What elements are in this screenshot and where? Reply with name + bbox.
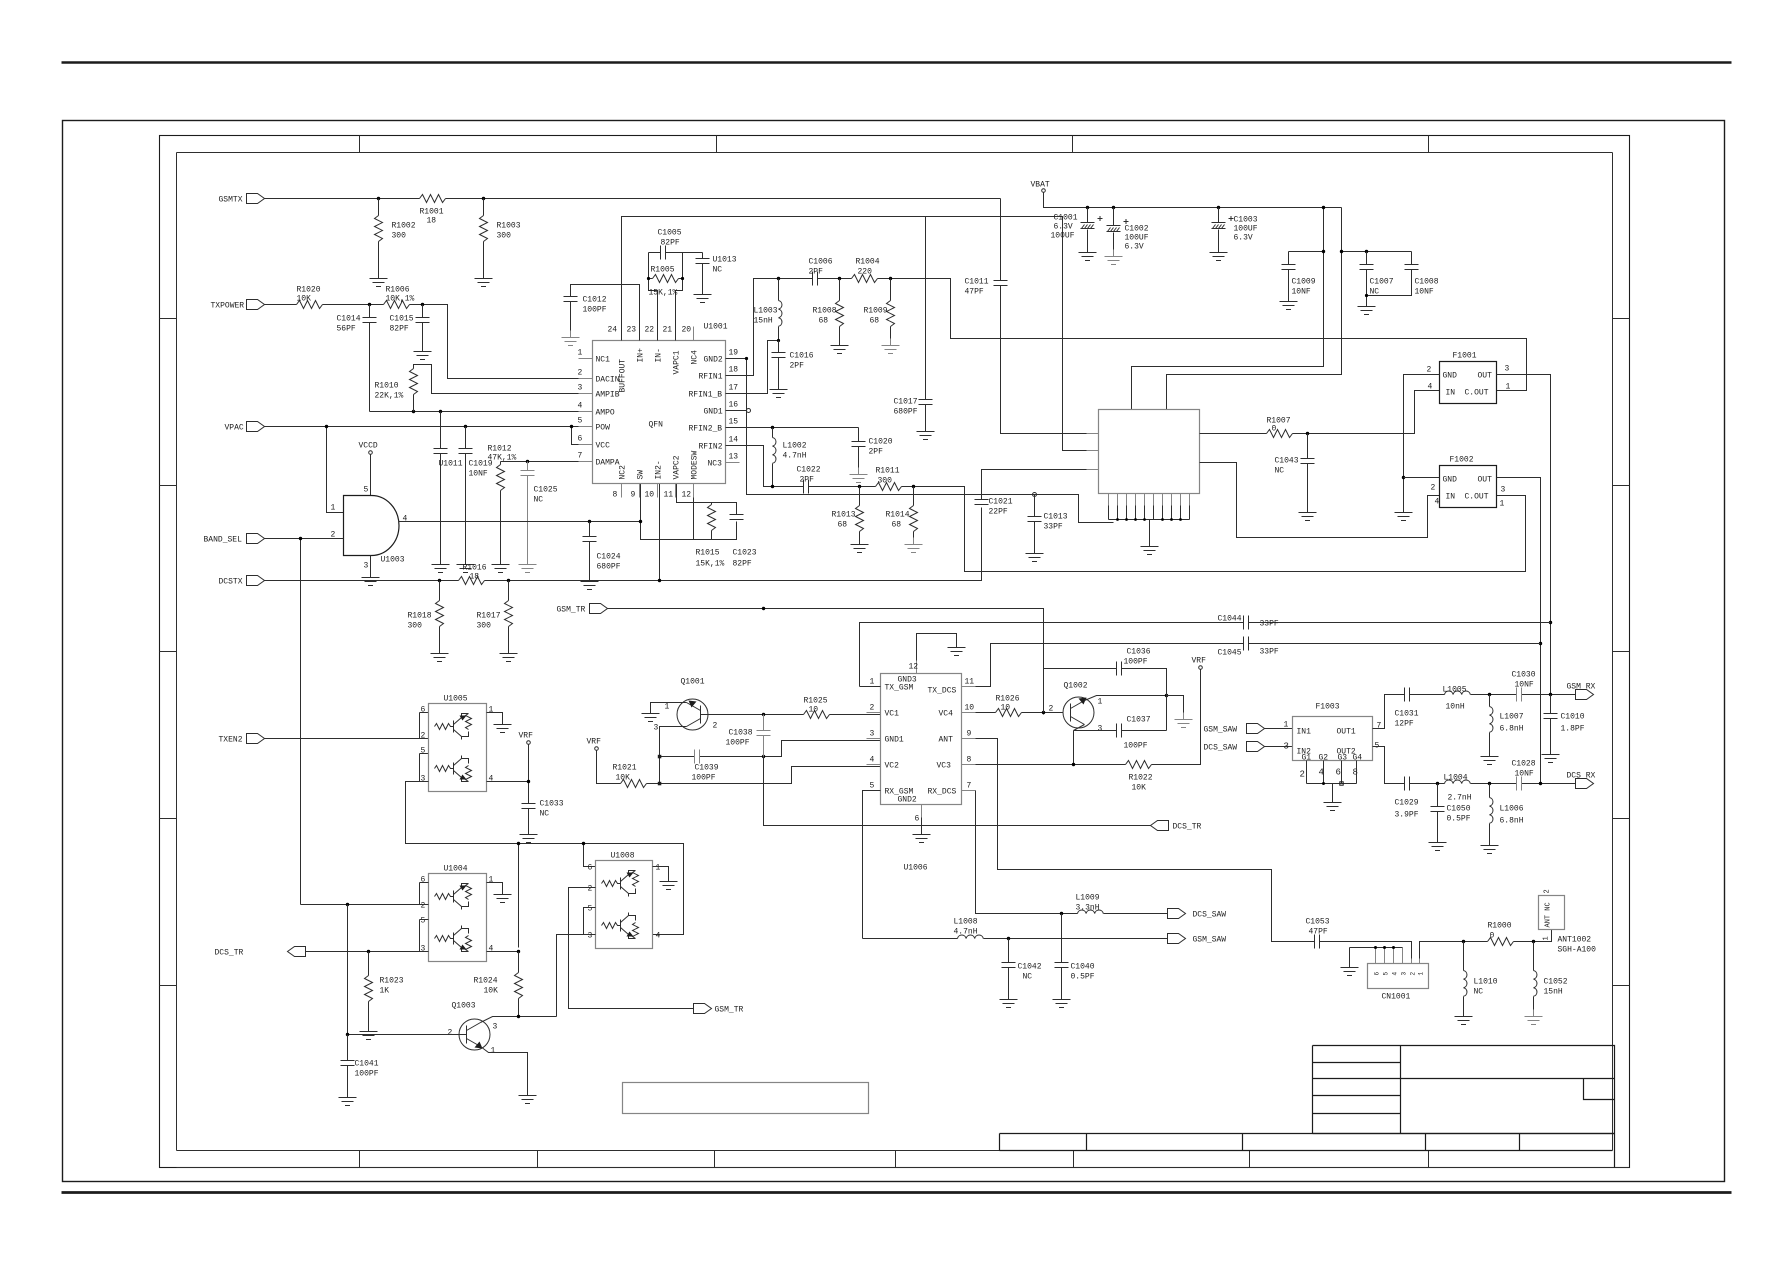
svg-text:L1009: L1009	[1076, 894, 1100, 903]
svg-text:C1016: C1016	[790, 352, 814, 361]
svg-text:5: 5	[870, 782, 875, 791]
svg-text:R1002: R1002	[392, 222, 416, 231]
ground U1011	[432, 558, 450, 573]
power VBAT	[1031, 181, 1050, 193]
svg-text:C1029: C1029	[1395, 799, 1419, 808]
svg-text:100PF: 100PF	[583, 306, 607, 315]
svg-text:1: 1	[1543, 936, 1551, 940]
capacitor C1030	[1512, 671, 1536, 702]
svg-text:680PF: 680PF	[597, 563, 621, 572]
svg-text:L1006: L1006	[1500, 805, 1524, 814]
wire net VBAT	[1044, 193, 1342, 410]
ground L1007	[1481, 750, 1499, 765]
svg-text:R1011: R1011	[876, 467, 900, 476]
svg-text:4: 4	[1428, 383, 1433, 392]
svg-text:300: 300	[878, 477, 893, 486]
connector DCS_RX	[1567, 772, 1596, 789]
svg-text:SW: SW	[637, 470, 646, 480]
ground C1043	[1299, 506, 1317, 521]
svg-text:5: 5	[588, 905, 593, 914]
PA module bottom pins	[1109, 494, 1190, 540]
svg-text:7: 7	[578, 452, 583, 461]
svg-text:IN1: IN1	[1297, 728, 1312, 737]
svg-text:C1044: C1044	[1218, 615, 1242, 624]
wire net U1005 pin4	[487, 745, 529, 804]
ground C1013	[1026, 547, 1044, 562]
connector GSM_SAW right	[1204, 724, 1265, 735]
wire net GSMTX	[265, 198, 1001, 200]
resistor R1005	[647, 266, 684, 341]
ground F1001	[1395, 506, 1413, 521]
inner frame inner line	[177, 153, 1613, 1151]
ground C1052	[1525, 1010, 1543, 1025]
ground C1010	[1542, 748, 1560, 763]
wire net Q1001 collector	[651, 703, 687, 707]
capacitor C1005	[649, 229, 683, 279]
wire net AMPO	[370, 411, 593, 413]
resistor R1013	[832, 487, 864, 538]
transistor array U1004	[429, 865, 487, 962]
ground Q1002 bias	[1175, 713, 1193, 728]
svg-text:4.7nH: 4.7nH	[954, 928, 978, 937]
capacitor C1040	[1055, 914, 1095, 993]
svg-text:22: 22	[645, 326, 655, 335]
capacitor C1053	[1306, 918, 1330, 949]
svg-text:1: 1	[870, 678, 875, 687]
svg-text:POW: POW	[596, 424, 611, 433]
svg-text:G3: G3	[1338, 754, 1348, 763]
wire net Q1002 collector	[1085, 696, 1167, 701]
resistor R1025	[804, 697, 830, 719]
svg-text:GSM_TR: GSM_TR	[715, 1006, 744, 1015]
svg-text:GND2: GND2	[704, 356, 723, 365]
svg-text:4: 4	[489, 775, 494, 784]
svg-text:33PF: 33PF	[1260, 648, 1279, 657]
wire net U1003 output	[399, 484, 694, 540]
svg-text:100UF: 100UF	[1125, 234, 1149, 243]
svg-text:R1017: R1017	[477, 612, 501, 621]
svg-text:NC: NC	[540, 810, 550, 819]
svg-text:VC3: VC3	[937, 762, 952, 771]
inductor L1006	[1490, 784, 1524, 839]
svg-text:5: 5	[364, 486, 369, 495]
resistor R1008	[813, 279, 844, 339]
and-gate U1003	[344, 496, 405, 565]
connector BAND_SEL	[204, 534, 265, 545]
svg-text:2: 2	[713, 722, 718, 731]
U1001 right pin numbers	[729, 349, 739, 462]
svg-text:3: 3	[421, 945, 426, 954]
svg-text:3: 3	[870, 730, 875, 739]
svg-text:NC: NC	[534, 496, 544, 505]
svg-text:47PF: 47PF	[1309, 928, 1328, 937]
wire net U1004 pin2 row	[301, 883, 429, 952]
svg-text:4: 4	[489, 945, 494, 954]
svg-text:TX_GSM: TX_GSM	[885, 684, 914, 693]
wire net Q1003 base	[348, 905, 467, 1035]
svg-text:10K: 10K	[616, 774, 631, 783]
svg-text:11: 11	[965, 678, 975, 687]
svg-text:ANT1002: ANT1002	[1558, 936, 1592, 945]
ground R1012	[492, 558, 510, 573]
wire net U1006 gnd3	[917, 634, 957, 661]
svg-text:2: 2	[448, 1029, 453, 1038]
svg-text:100PF: 100PF	[1124, 658, 1148, 667]
PA module left pin stubs	[1087, 434, 1099, 470]
U1001 bottom pin stubs	[622, 484, 694, 498]
ground R1023	[360, 1025, 378, 1040]
svg-text:6: 6	[588, 864, 593, 873]
svg-text:C1024: C1024	[597, 553, 621, 562]
svg-text:1: 1	[578, 349, 583, 358]
svg-text:100PF: 100PF	[692, 774, 716, 783]
svg-text:F1001: F1001	[1453, 352, 1477, 361]
inductor C1052	[1534, 942, 1568, 1010]
svg-text:33PF: 33PF	[1260, 620, 1279, 629]
svg-text:L1003: L1003	[754, 307, 778, 316]
svg-text:ANT NC: ANT NC	[1545, 902, 1553, 927]
svg-text:Q1003: Q1003	[452, 1002, 476, 1011]
svg-text:U1004: U1004	[444, 865, 468, 874]
ground U1005	[494, 718, 512, 733]
svg-text:GSM_SAW: GSM_SAW	[1204, 726, 1238, 735]
op-amp U1001 QFN PA controller	[593, 323, 728, 484]
wire net VC1 row	[701, 714, 881, 716]
wire net RX_DCS row	[976, 791, 1168, 914]
svg-text:VC4: VC4	[939, 710, 954, 719]
resistor R1001	[420, 195, 446, 226]
svg-text:6.8nH: 6.8nH	[1500, 817, 1524, 826]
svg-text:12PF: 12PF	[1395, 720, 1414, 729]
svg-text:6: 6	[1336, 768, 1341, 778]
svg-text:10NF: 10NF	[1515, 681, 1534, 690]
capacitor C1007	[1360, 252, 1394, 300]
svg-text:8: 8	[1353, 768, 1358, 778]
svg-text:3: 3	[654, 724, 659, 733]
capacitor C1033	[522, 800, 564, 828]
svg-text:10NF: 10NF	[1515, 770, 1534, 779]
svg-text:C1025: C1025	[534, 486, 558, 495]
svg-text:6.8nH: 6.8nH	[1500, 725, 1524, 734]
svg-text:20: 20	[682, 326, 692, 335]
svg-text:BAND_SEL: BAND_SEL	[204, 536, 243, 545]
svg-text:0.5PF: 0.5PF	[1447, 815, 1471, 824]
ground C1015	[414, 345, 432, 360]
wire net VC3 row	[976, 670, 1201, 765]
resistor R1015	[696, 505, 725, 569]
ground L1006	[1481, 839, 1499, 854]
svg-text:R1005: R1005	[651, 266, 675, 275]
svg-text:1: 1	[665, 703, 670, 712]
transistor array U1005	[429, 695, 487, 792]
resistor R1004	[852, 258, 880, 283]
svg-text:5: 5	[421, 917, 426, 926]
svg-text:680PF: 680PF	[894, 408, 918, 417]
svg-text:0.5PF: 0.5PF	[1071, 973, 1095, 982]
svg-text:R1015: R1015	[696, 549, 720, 558]
svg-text:C1045: C1045	[1218, 649, 1242, 658]
svg-text:NC: NC	[1023, 973, 1033, 982]
svg-text:C.OUT: C.OUT	[1465, 493, 1489, 502]
svg-text:DCS_TR: DCS_TR	[1173, 823, 1202, 832]
resistor R1018	[408, 581, 444, 647]
wire net U1005 pin1 gnd	[487, 713, 503, 718]
svg-text:ANT: ANT	[939, 736, 954, 745]
resistor R1011	[876, 467, 902, 491]
svg-text:13: 13	[729, 453, 739, 462]
ground U1013	[694, 288, 712, 303]
svg-text:4.7nH: 4.7nH	[783, 452, 807, 461]
svg-text:NC: NC	[713, 266, 723, 275]
svg-text:100UF: 100UF	[1051, 232, 1075, 241]
svg-text:IN-: IN-	[655, 348, 664, 362]
connector DCS_SAW bottom	[1168, 909, 1227, 920]
svg-text:6: 6	[1374, 972, 1381, 976]
ground C1033	[520, 828, 538, 843]
svg-text:2: 2	[870, 704, 875, 713]
ground U1003	[362, 556, 380, 586]
resistor R1024	[474, 952, 523, 1017]
capacitor C1016	[772, 341, 814, 383]
connector GSM_TR bottom	[694, 1004, 744, 1015]
svg-text:10: 10	[809, 706, 819, 715]
svg-text:1: 1	[1098, 698, 1103, 707]
capacitor C1025	[521, 462, 558, 558]
U1001 top pin names rotated	[619, 348, 700, 393]
svg-text:33PF: 33PF	[1044, 523, 1063, 532]
svg-text:10K: 10K	[1132, 784, 1147, 793]
connector CN1001	[1368, 948, 1429, 1002]
wire net GSM_SAW in	[1265, 728, 1293, 730]
wire net F1002 in	[1200, 463, 1440, 538]
wire net RFIN2_B	[726, 427, 859, 429]
svg-text:VRF: VRF	[519, 732, 534, 741]
svg-text:VAPC2: VAPC2	[673, 455, 682, 479]
wire net F1002 out	[1497, 478, 1541, 784]
capacitor C1020	[852, 428, 893, 468]
svg-text:IN: IN	[1446, 389, 1456, 398]
wire net GND1 GND2	[726, 359, 1114, 523]
capacitor C1002	[1107, 208, 1149, 252]
ground R1013	[851, 538, 869, 553]
svg-text:R1026: R1026	[996, 695, 1020, 704]
wire net Q1003 collector	[481, 1017, 557, 1023]
svg-text:C1010: C1010	[1561, 713, 1585, 722]
power VRF U1005	[519, 732, 534, 745]
svg-text:C1030: C1030	[1512, 671, 1536, 680]
ground C1012	[562, 331, 580, 346]
svg-text:AMPO: AMPO	[596, 409, 615, 418]
svg-text:RFIN2_B: RFIN2_B	[689, 425, 723, 434]
capacitor C1001	[1051, 208, 1103, 246]
svg-text:C1038: C1038	[729, 729, 753, 738]
svg-text:68: 68	[819, 317, 829, 326]
svg-text:1: 1	[1284, 721, 1289, 730]
svg-text:AMPIB: AMPIB	[596, 391, 620, 400]
svg-text:2PF: 2PF	[790, 362, 805, 371]
svg-text:BUFFOUT: BUFFOUT	[619, 359, 628, 393]
svg-text:300: 300	[497, 232, 512, 241]
svg-text:R1025: R1025	[804, 697, 828, 706]
svg-text:C1001: C1001	[1054, 214, 1078, 223]
svg-text:2: 2	[421, 732, 426, 741]
svg-text:L1005: L1005	[1443, 686, 1467, 695]
F1002 pin numbers	[1431, 484, 1506, 509]
capacitor C1042	[1002, 939, 1042, 993]
svg-text:C1017: C1017	[894, 398, 918, 407]
svg-text:1: 1	[331, 504, 336, 513]
wire net CN1001 gnd	[1350, 948, 1403, 961]
wire net DCS_TR row	[306, 951, 429, 953]
svg-text:DCS_TR: DCS_TR	[215, 949, 244, 958]
wire net DCSTX	[265, 470, 1099, 581]
capacitor C1015	[390, 305, 430, 345]
svg-text:DAMPA: DAMPA	[596, 459, 620, 468]
wire net TXPOWER	[265, 305, 593, 379]
connector GSM_RX	[1567, 683, 1596, 700]
U1006 pin stubs	[867, 661, 976, 818]
svg-text:L1008: L1008	[954, 918, 978, 927]
svg-text:100UF: 100UF	[1234, 225, 1258, 234]
capacitor C1039	[692, 750, 719, 783]
wire net Q1001 emitter bias	[660, 727, 881, 784]
wire net C1036 loop	[1044, 669, 1184, 731]
U1001 right pin stubs	[726, 359, 740, 463]
svg-text:TXPOWER: TXPOWER	[211, 302, 245, 311]
svg-text:OUT: OUT	[1478, 372, 1493, 381]
ground Q1003	[519, 1089, 537, 1104]
svg-text:R1023: R1023	[380, 977, 404, 986]
resistor R1016	[459, 564, 487, 585]
svg-text:CN1001: CN1001	[1382, 993, 1411, 1002]
inductor L1003	[754, 279, 782, 341]
U1001 right pin names	[689, 356, 723, 469]
ground R1009	[882, 339, 900, 354]
svg-text:220: 220	[858, 268, 873, 277]
ground Q1001	[642, 707, 660, 722]
svg-text:18: 18	[470, 573, 480, 582]
svg-text:C1008: C1008	[1415, 278, 1439, 287]
svg-text:10K,1%: 10K,1%	[386, 295, 415, 304]
svg-text:2: 2	[421, 902, 426, 911]
svg-text:2: 2	[1544, 889, 1552, 893]
connector TXEN2	[219, 734, 265, 745]
power VRF Q1002	[1192, 657, 1207, 670]
svg-text:2: 2	[1410, 972, 1417, 976]
capacitor C1011	[965, 199, 1099, 434]
resistor R1021	[613, 764, 647, 788]
svg-text:GSM_TR: GSM_TR	[557, 606, 586, 615]
resistor R1002	[375, 199, 416, 272]
ground C1042	[1000, 993, 1018, 1008]
svg-text:68: 68	[838, 521, 848, 530]
capacitor C1029	[1395, 777, 1419, 820]
svg-text:C1006: C1006	[809, 258, 833, 267]
svg-text:C1028: C1028	[1512, 760, 1536, 769]
svg-text:C1015: C1015	[390, 315, 414, 324]
svg-text:VC2: VC2	[885, 762, 900, 771]
U1001 left pin stubs	[579, 359, 593, 462]
svg-text:C1022: C1022	[797, 466, 821, 475]
svg-text:C1042: C1042	[1018, 963, 1042, 972]
svg-text:1: 1	[1506, 383, 1511, 392]
svg-text:68: 68	[892, 521, 902, 530]
svg-text:2PF: 2PF	[809, 268, 824, 277]
svg-text:OUT: OUT	[1478, 476, 1493, 485]
svg-text:10: 10	[965, 704, 975, 713]
wire net VAPC2 MODESW bias	[641, 484, 737, 540]
svg-text:C1009: C1009	[1292, 278, 1316, 287]
top heavy rule	[62, 61, 1732, 63]
ground U1004	[494, 888, 512, 903]
svg-text:RFIN1: RFIN1	[699, 373, 723, 382]
U1006 pin numbers	[870, 663, 975, 824]
svg-text:6.3V: 6.3V	[1054, 223, 1073, 232]
svg-text:1: 1	[1500, 500, 1505, 509]
svg-text:R1022: R1022	[1129, 774, 1153, 783]
resistor R1010	[375, 365, 593, 412]
title block main box	[1313, 1046, 1615, 1134]
svg-text:15nH: 15nH	[1544, 988, 1563, 997]
svg-text:3: 3	[364, 562, 369, 571]
wire net GSM RX match	[1373, 695, 1576, 729]
capacitor C1008	[1365, 252, 1439, 298]
svg-text:12: 12	[909, 663, 919, 672]
svg-text:82PF: 82PF	[661, 239, 680, 248]
svg-text:C1039: C1039	[695, 764, 719, 773]
svg-text:6.3V: 6.3V	[1234, 234, 1253, 243]
svg-text:R1024: R1024	[474, 977, 498, 986]
svg-text:G4: G4	[1353, 754, 1363, 763]
svg-text:10: 10	[1001, 704, 1011, 713]
ground R1014	[905, 538, 923, 553]
svg-text:6: 6	[915, 815, 920, 824]
outer border	[63, 121, 1725, 1182]
svg-text:C1007: C1007	[1370, 278, 1394, 287]
svg-text:DCS_SAW: DCS_SAW	[1204, 744, 1238, 753]
svg-text:1.8PF: 1.8PF	[1561, 725, 1585, 734]
inner frame outer line	[160, 136, 1630, 1168]
wire net VC4 row	[976, 713, 1063, 715]
svg-text:C1040: C1040	[1071, 963, 1095, 972]
svg-text:300: 300	[392, 232, 407, 241]
svg-text:2: 2	[578, 369, 583, 378]
svg-text:U1001: U1001	[704, 323, 728, 332]
svg-text:R1003: R1003	[497, 222, 521, 231]
svg-text:GSMTX: GSMTX	[219, 196, 243, 205]
svg-text:47K,1%: 47K,1%	[488, 454, 517, 463]
svg-text:3: 3	[1284, 742, 1289, 752]
svg-text:17: 17	[729, 384, 739, 393]
svg-text:10NF: 10NF	[469, 470, 488, 479]
svg-text:Q1001: Q1001	[681, 678, 705, 687]
capacitor C1003	[1212, 208, 1258, 246]
resistor R1017	[477, 581, 513, 647]
resistor R1023	[365, 952, 404, 1025]
wire net antenna node	[1464, 930, 1552, 942]
capacitor C1021	[975, 498, 1013, 517]
capacitor C1031	[1395, 688, 1419, 729]
U1005 pin numbers	[421, 706, 494, 784]
svg-text:L1004: L1004	[1444, 774, 1468, 783]
inductor L1004	[1444, 774, 1472, 803]
transistor Q1003	[452, 1002, 491, 1051]
svg-text:C1053: C1053	[1306, 918, 1330, 927]
svg-text:VAPC1: VAPC1	[673, 350, 682, 374]
svg-text:VC1: VC1	[885, 710, 900, 719]
svg-text:1K: 1K	[380, 987, 390, 996]
resistor R1000	[1488, 922, 1514, 946]
